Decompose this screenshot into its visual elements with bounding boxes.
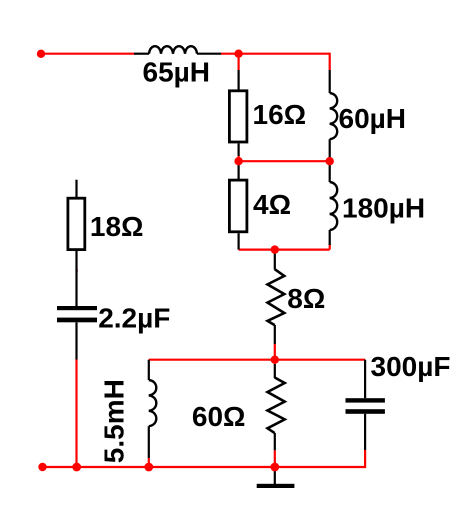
- wire 180uH bottom red stub: [329, 244, 331, 250]
- svg-text:5.5mH: 5.5mH: [99, 379, 130, 463]
- node junction bottom left-branch: [72, 463, 81, 472]
- resistor R2 4-ohm body: [229, 180, 247, 232]
- resistor R1 16-ohm body: [229, 91, 247, 142]
- wire 180uH top black lead: [329, 161, 331, 182]
- wire right vertical black upper lead: [329, 70, 331, 93]
- wire 300uF top black lead: [364, 360, 366, 399]
- wire left branch red vertical: [75, 359, 77, 467]
- svg-text:18Ω: 18Ω: [90, 211, 144, 242]
- wire cap to bottom black lead: [75, 322, 77, 359]
- wire 4-ohm top black lead: [238, 161, 240, 179]
- wire 5.5mH bottom red stub: [148, 458, 150, 467]
- wire 8-ohm bottom black lead: [274, 325, 276, 344]
- inductor L1 65uH coil: [149, 46, 197, 54]
- node terminal bottom-left: [38, 463, 46, 471]
- node junction middle-right: [326, 157, 334, 165]
- wire 18-ohm open top stub: [75, 180, 77, 198]
- svg-text:16Ω: 16Ω: [253, 99, 307, 130]
- wire 16-ohm top black lead: [238, 70, 240, 90]
- wire 300uF bottom red stub: [364, 450, 366, 468]
- inductor L3 180uH coil: [330, 182, 338, 230]
- wire top rail black lead left of 65uH: [134, 53, 149, 55]
- wire 5.5mH bottom black lead: [148, 426, 150, 458]
- wire right vertical red stub: [329, 53, 331, 70]
- capacitor C1 2.2uF bottom plate: [57, 318, 97, 323]
- ground: [257, 484, 295, 488]
- node junction above 8-ohm: [271, 245, 279, 253]
- svg-text:180µH: 180µH: [342, 192, 425, 223]
- resistor R4 18-ohm body: [68, 198, 85, 249]
- wire 60-ohm top black lead: [274, 364, 276, 378]
- svg-text:8Ω: 8Ω: [287, 283, 325, 314]
- wire 60-ohm bottom black lead: [274, 433, 276, 450]
- resistor R5 60-ohm zigzag: [268, 378, 285, 434]
- wire third rail: [149, 359, 365, 361]
- inductor L4 5.5mH coil: [149, 380, 157, 426]
- capacitor C2 300uF bottom plate: [346, 409, 385, 414]
- inductor L2 60uH coil: [330, 93, 338, 139]
- capacitor C1 2.2uF top plate: [57, 306, 97, 310]
- wire top rail black lead right of 65uH: [197, 53, 221, 55]
- svg-text:65µH: 65µH: [143, 57, 211, 88]
- wire 4-ohm bottom black lead: [238, 233, 240, 249]
- wire ground stub: [274, 467, 276, 484]
- node junction top (16-ohm / 60uH split): [234, 50, 242, 58]
- wire middle rail: [239, 160, 330, 162]
- svg-text:60µH: 60µH: [339, 103, 407, 134]
- wire 5.5mH top black lead: [148, 360, 150, 380]
- wire 18-ohm to cap black lead: [75, 251, 77, 306]
- wire 60-ohm bottom red stub: [274, 450, 276, 467]
- svg-text:4Ω: 4Ω: [253, 189, 291, 220]
- wire bottom rail: [41, 466, 365, 468]
- node junction middle-left: [234, 157, 242, 165]
- wire 16-ohm bottom red stub: [238, 155, 240, 161]
- node junction bottom 5.5mH: [144, 463, 153, 472]
- resistor R3 8-ohm zigzag: [268, 269, 285, 325]
- node junction bottom ground: [270, 463, 279, 472]
- svg-text:300µF: 300µF: [371, 351, 451, 382]
- wire 8-ohm top black lead: [274, 250, 276, 270]
- wire 180uH bottom black lead: [329, 230, 331, 245]
- wire top rail red right segment: [221, 53, 330, 55]
- wire 300uF bottom black lead: [364, 414, 366, 450]
- node junction below 8-ohm: [271, 356, 279, 364]
- svg-text:60Ω: 60Ω: [192, 401, 246, 432]
- node stray red dot on left branch: [76, 269, 78, 271]
- wire top rail red left segment: [41, 53, 134, 55]
- wire second rail: [239, 249, 330, 251]
- wire 16-ohm top red stub: [238, 54, 240, 70]
- wire 60-ohm top red stub: [274, 360, 276, 364]
- svg-text:2.2µF: 2.2µF: [98, 303, 170, 334]
- capacitor C2 300uF top plate: [346, 398, 385, 402]
- wire right vertical black lower lead: [329, 139, 331, 161]
- wire 8-ohm bottom red stub: [274, 344, 276, 360]
- wire 16-ohm bottom black lead: [238, 143, 240, 156]
- node input terminal top-left: [37, 50, 45, 58]
